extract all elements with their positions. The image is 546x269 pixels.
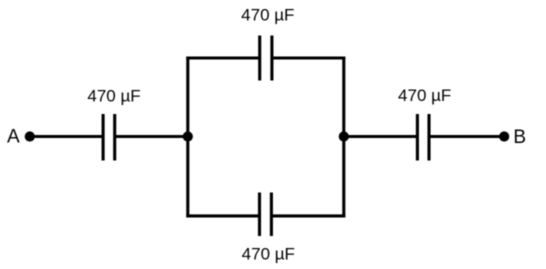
svg-text:470 µF: 470 µF	[87, 86, 140, 105]
svg-text:470 µF: 470 µF	[398, 86, 451, 105]
svg-text:A: A	[7, 127, 20, 148]
svg-text:470 µF: 470 µF	[241, 5, 294, 24]
svg-text:470 µF: 470 µF	[242, 244, 295, 263]
svg-text:B: B	[513, 127, 526, 148]
